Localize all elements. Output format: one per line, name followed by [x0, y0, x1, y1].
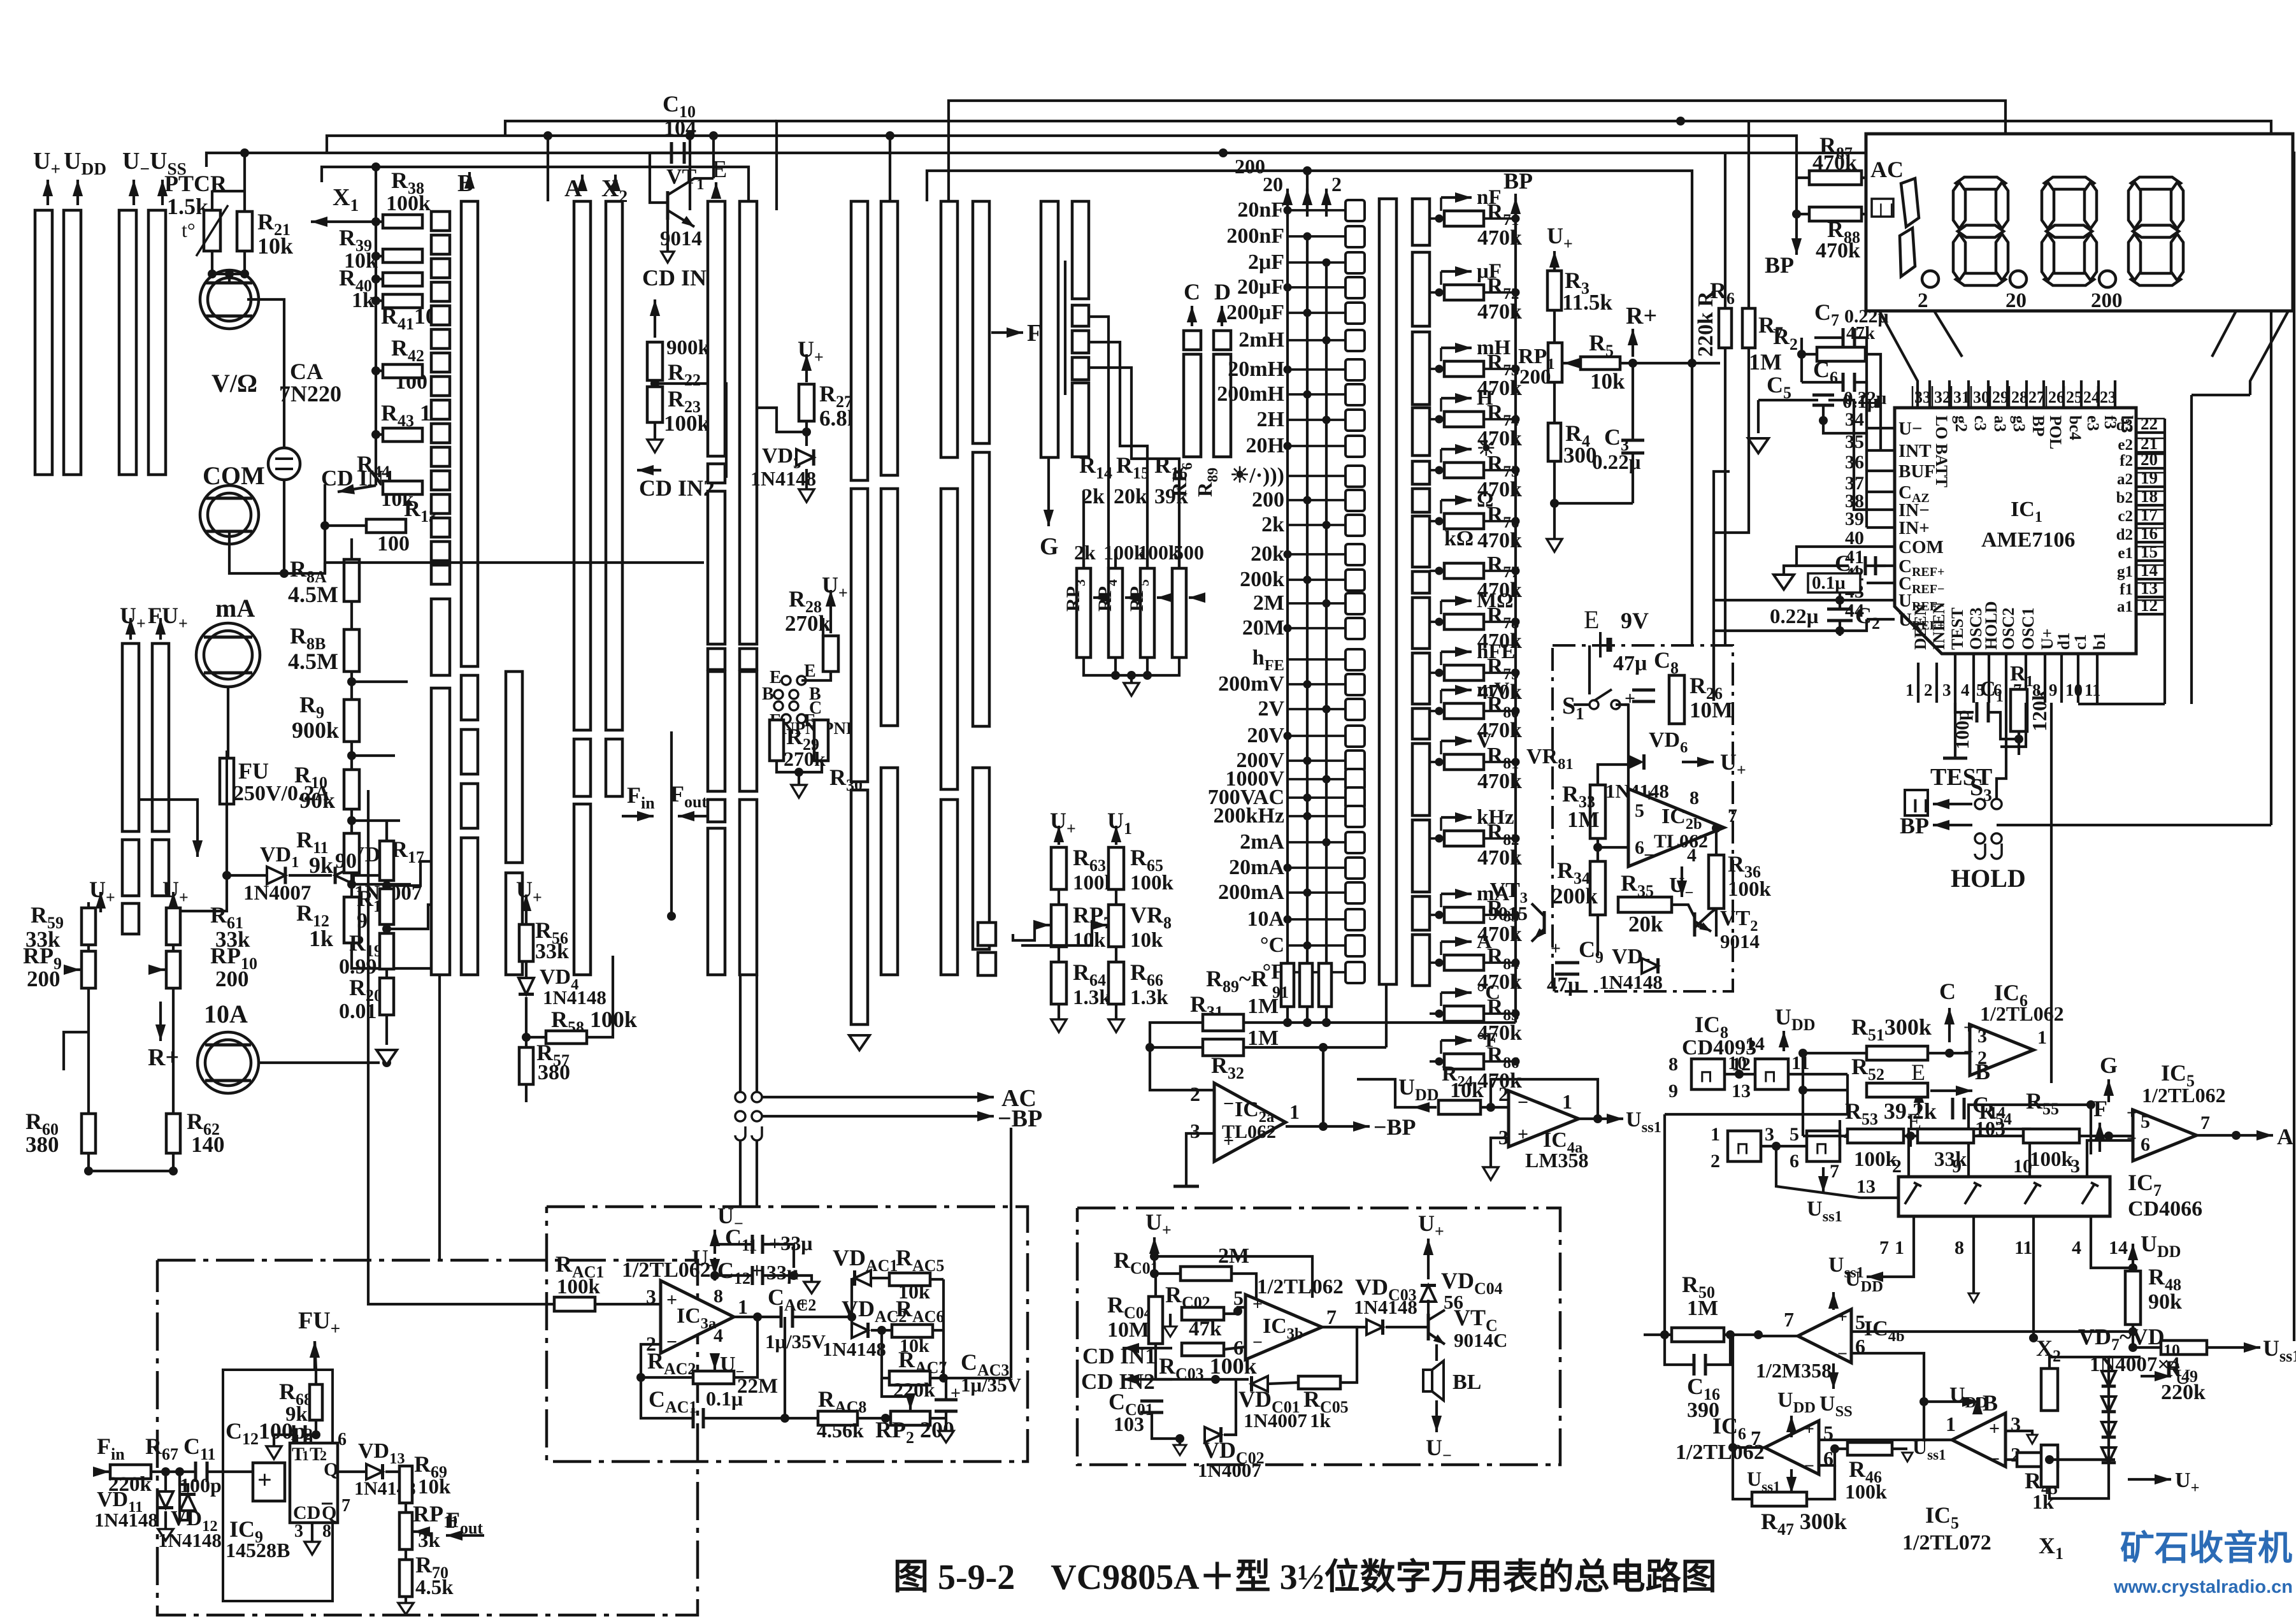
svg-text:V: V: [1477, 729, 1492, 752]
IC7 bottom pins: [1912, 1216, 1915, 1239]
svg-text:3: 3: [294, 1521, 303, 1541]
svg-text:31: 31: [1953, 388, 1970, 406]
svg-text:TEST: TEST: [1948, 608, 1967, 650]
resistor R33 1M: [1590, 785, 1605, 838]
wire R29 bottom join / R30: [777, 762, 822, 772]
resistor R67 220k: [110, 1465, 151, 1479]
svg-text:c2: c2: [2118, 508, 2133, 525]
wires pot tops: [1082, 549, 1085, 568]
svg-text:8: 8: [322, 1521, 331, 1541]
svg-text:0.1μ: 0.1μ: [1812, 573, 1846, 593]
gate IC8a: [1691, 1059, 1725, 1089]
switch bar B x724: [461, 201, 478, 666]
svg-text:°C: °C: [1260, 933, 1284, 957]
svg-text:U: U: [2175, 1365, 2191, 1389]
svg-text:1M: 1M: [1749, 349, 1782, 375]
svg-text:2: 2: [1331, 173, 1342, 196]
node G arrow: [2107, 1079, 2110, 1102]
wire to V-ohm terminal: [212, 273, 245, 275]
wire R23 down arrow: [654, 422, 656, 440]
svg-text:200: 200: [2091, 289, 2123, 312]
svg-text:G: G: [2100, 1053, 2118, 1078]
svg-text:e2: e2: [2118, 436, 2133, 454]
svg-text:7: 7: [2200, 1112, 2210, 1133]
node G arrow: [1047, 457, 1050, 526]
svg-text:8: 8: [1955, 1237, 1964, 1258]
switch bar A x901: [574, 201, 591, 730]
wires battery block internals: [1598, 765, 1628, 785]
svg-text:29: 29: [1992, 388, 2009, 406]
svg-text:5: 5: [1635, 800, 1644, 821]
svg-text:μF: μF: [1477, 260, 1502, 283]
wire IN+ COM ground: [1757, 400, 1760, 433]
IC7 inside switch symbols: [1905, 1184, 1918, 1204]
wire taps to boxes: [352, 680, 408, 683]
svg-text:d3: d3: [2116, 417, 2133, 434]
svg-text:Ω: Ω: [1477, 489, 1493, 512]
potentiometer RP1 200: [1548, 343, 1562, 382]
svg-text:1: 1: [1946, 1412, 1956, 1435]
svg-text:28: 28: [2011, 388, 2028, 406]
svg-text:+: +: [1963, 1018, 1974, 1038]
svg-text:R+: R+: [1626, 303, 1657, 329]
svg-text:1k: 1k: [309, 926, 333, 951]
wires R6 R7 up to buses: [1724, 153, 1726, 308]
svg-text:100k: 100k: [1130, 872, 1174, 895]
resistor R86 470k: [1444, 1054, 1484, 1069]
potentiometer RP2 200: [891, 1411, 930, 1425]
svg-text:9k: 9k: [309, 852, 333, 878]
svg-text:3: 3: [646, 1285, 656, 1308]
display block frame: [1866, 134, 2293, 311]
svg-text:LM358: LM358: [1525, 1149, 1589, 1172]
wire VD pair bottom: [168, 840, 227, 911]
svg-text:FU: FU: [238, 758, 269, 784]
svg-text:200k: 200k: [1240, 568, 1284, 591]
svg-text:16: 16: [2141, 524, 2158, 543]
svg-text:hFE: hFE: [1477, 640, 1516, 663]
svg-text:Q: Q: [322, 1502, 336, 1523]
op-amp IC2a TL062: [1214, 1083, 1286, 1161]
svg-text:10k: 10k: [1450, 1079, 1484, 1102]
svg-text:4: 4: [1961, 680, 1970, 700]
contact boxes B lower: [461, 675, 478, 720]
wire R18 tap: [387, 861, 433, 886]
wire R88 to lobat: [1862, 213, 1881, 215]
svg-text:1.3k: 1.3k: [1073, 986, 1111, 1009]
switch bar x1527: [973, 201, 989, 443]
svg-text:2H: 2H: [1257, 408, 1284, 431]
crystal X1: [2041, 1445, 2058, 1487]
svg-text:7: 7: [1830, 1161, 1839, 1182]
contact box A lower: [574, 739, 591, 796]
svg-text:4.5M: 4.5M: [288, 649, 338, 674]
node U- below pin4: [714, 1353, 716, 1370]
svg-text:COM: COM: [1898, 537, 1944, 557]
resistor R80 470k: [1444, 703, 1484, 719]
svg-text:d1: d1: [2055, 633, 2073, 650]
svg-text:270k: 270k: [784, 747, 826, 770]
svg-text:900k: 900k: [292, 717, 339, 743]
wire chains R59 RP9 R60: [87, 945, 90, 951]
wire R87 to AC: [1862, 176, 1886, 179]
wire R38-R41 left rail: [376, 220, 383, 223]
switch bar x1683 upper: [1072, 201, 1089, 299]
svg-text:100k: 100k: [2030, 1148, 2074, 1171]
wires gates to R51 cluster: [1803, 1089, 1848, 1091]
display decimal points: [1922, 271, 1939, 287]
svg-text:8: 8: [1690, 787, 1699, 808]
resistor R6 220k: [1719, 308, 1732, 348]
switch bar x1383: [881, 201, 898, 475]
svg-text:1: 1: [2037, 1027, 2047, 1048]
svg-text:1: 1: [1289, 1100, 1300, 1123]
pot wiper arrows: [1093, 596, 1107, 599]
svg-text:20μF: 20μF: [1237, 275, 1284, 299]
wire CD IN2 long: [325, 561, 704, 564]
svg-text:1M: 1M: [1247, 995, 1279, 1018]
node CD IN1 down arrow: [666, 220, 669, 252]
contact boxes x1683: [1072, 305, 1089, 326]
svg-text:1M: 1M: [1687, 1297, 1718, 1320]
block frame buzzer driver: [1077, 1208, 1560, 1465]
svg-text:f2: f2: [2120, 452, 2133, 470]
svg-text:nF: nF: [1477, 186, 1502, 209]
svg-text:20mA: 20mA: [1229, 856, 1284, 879]
svg-text:10k: 10k: [1073, 929, 1106, 952]
wire top bus 1: [949, 101, 2005, 201]
resistor R63 100k: [1051, 847, 1066, 889]
wire IC8a-b: [1725, 1073, 1755, 1075]
transistor socket NPN PNP pins: [782, 676, 791, 685]
svg-text:2k: 2k: [1082, 485, 1105, 508]
svg-text:200mV: 200mV: [1218, 672, 1284, 696]
svg-text:100k: 100k: [1845, 1480, 1887, 1503]
svg-text:+: +: [1252, 1295, 1263, 1314]
svg-text:10M: 10M: [1690, 698, 1733, 722]
svg-text:F: F: [2093, 1096, 2107, 1121]
svg-text:B: B: [1975, 1059, 1990, 1084]
wire FU+ feed vertical: [438, 975, 441, 1260]
svg-text:120k: 120k: [2028, 689, 2051, 731]
switch bar USS: [148, 210, 166, 475]
svg-text:1: 1: [302, 1448, 309, 1463]
svg-text:1N4148: 1N4148: [1599, 971, 1663, 993]
transistor VTC 9014C: [1416, 1326, 1428, 1328]
svg-text:90: 90: [335, 849, 357, 873]
svg-text:HOLD: HOLD: [1951, 864, 2026, 893]
svg-text:R47 300k: R47 300k: [1761, 1509, 1847, 1539]
svg-text:+: +: [1518, 1124, 1528, 1145]
svg-text:图 5-9-2 VC9805A＋型 3½位数字万用表的总电路: 图 5-9-2 VC9805A＋型 3½位数字万用表的总电路图: [893, 1558, 1717, 1597]
svg-text:32: 32: [1934, 388, 1951, 406]
switch bar U-: [119, 210, 136, 475]
wire S2 to AC arrow: [762, 1096, 956, 1098]
svg-text:G: G: [1040, 533, 1059, 560]
diode VDC01 1N4007: [1252, 1376, 1268, 1391]
svg-text:1: 1: [1562, 1090, 1572, 1113]
display digit 8 second: [2044, 177, 2094, 189]
svg-text:100k: 100k: [664, 411, 710, 436]
resistor R81 470k: [1444, 754, 1484, 770]
wire V/ohm to CA: [247, 299, 284, 409]
svg-text:1μ/35V: 1μ/35V: [961, 1374, 1022, 1396]
svg-text:−: −: [1837, 1344, 1848, 1364]
svg-text:CD4066: CD4066: [2128, 1197, 2202, 1221]
HOLD contacts: [1975, 833, 1985, 844]
svg-text:0.01: 0.01: [339, 1000, 377, 1023]
svg-text:3: 3: [1942, 680, 1951, 700]
resistor RC05 1k: [1298, 1376, 1340, 1389]
ground CC01: [1179, 1439, 1181, 1445]
resistor R46 100k: [1848, 1442, 1892, 1455]
svg-text:a2: a2: [2117, 471, 2133, 488]
wire R32 row: [1244, 1046, 1386, 1049]
svg-text:200: 200: [1519, 366, 1551, 389]
svg-text:39: 39: [1845, 508, 1864, 529]
switch bar E1 x1111: [708, 201, 725, 456]
svg-text:7N220: 7N220: [279, 381, 341, 406]
resistor R76 470k: [1444, 514, 1484, 529]
svg-text:A: A: [2277, 1124, 2293, 1149]
svg-text:−: −: [1989, 1449, 2000, 1470]
svg-text:E: E: [712, 156, 727, 183]
svg-text:V/Ω: V/Ω: [212, 369, 257, 398]
wire from RP9 up: [99, 892, 102, 912]
switch bar x1634: [1041, 201, 1058, 457]
svg-text:19: 19: [2141, 468, 2158, 487]
svg-text:2mH: 2mH: [1238, 328, 1284, 352]
IC1 left pins 34-44: [1867, 427, 1895, 429]
wires R1 C1 osc: [1955, 703, 1974, 712]
svg-text:3: 3: [1190, 1119, 1200, 1142]
svg-text:g3: g3: [2010, 415, 2028, 432]
svg-text:104: 104: [664, 117, 696, 140]
wire top bus 5: [322, 167, 749, 210]
resistor R66 1.3k: [1109, 962, 1124, 1004]
wire chains R61 RP10 R62: [172, 945, 175, 951]
wires from contact boxes to right: [1089, 317, 1109, 568]
switch bar FUcol1: [122, 643, 139, 831]
wire S2 to -BP arrow: [762, 1115, 956, 1117]
svg-text:BP: BP: [1503, 168, 1533, 194]
svg-text:4.5k: 4.5k: [415, 1576, 454, 1599]
svg-text:200: 200: [1252, 488, 1284, 512]
contact box FUcol1 lower: [122, 840, 139, 896]
svg-text:1k: 1k: [1310, 1409, 1331, 1432]
wire R31 row to bus rail: [1244, 1021, 1516, 1024]
svg-text:8: 8: [714, 1286, 723, 1307]
svg-text:A: A: [1477, 930, 1492, 953]
switch bar range tall: [1379, 199, 1396, 984]
svg-text:13: 13: [1732, 1081, 1751, 1102]
resistor RC03 100k: [1182, 1343, 1224, 1356]
svg-text:1: 1: [738, 1295, 748, 1318]
wire battery to S1 to VD6: [1588, 645, 1591, 694]
svg-text:1: 1: [1905, 680, 1914, 700]
svg-text:9: 9: [1668, 1081, 1678, 1102]
svg-text:6: 6: [1635, 837, 1644, 858]
switch bar X2 x951: [606, 201, 622, 730]
svg-text:200: 200: [215, 966, 249, 991]
resistor R56 33k: [519, 924, 533, 961]
svg-text:+: +: [1837, 1307, 1848, 1327]
svg-text:20H: 20H: [1246, 434, 1284, 457]
svg-text:4.56k: 4.56k: [817, 1419, 864, 1442]
ground RC02: [1169, 1314, 1172, 1326]
wire C2 long feeds: [1714, 471, 1730, 600]
fuse FU 250V/0.2A: [227, 687, 229, 758]
svg-text:9014C: 9014C: [1454, 1329, 1507, 1351]
svg-text:47μ: 47μ: [1547, 974, 1580, 996]
display digit 8 first: [1956, 177, 2005, 189]
IC1 right rail: [2163, 419, 2166, 704]
svg-text:8: 8: [1668, 1054, 1678, 1075]
svg-text:7: 7: [1326, 1305, 1337, 1328]
svg-text:200kHz: 200kHz: [1214, 804, 1284, 828]
block frame AC rectifier: [547, 1207, 1028, 1462]
svg-text:c1: c1: [2071, 634, 2090, 650]
IC9 chip 14528B: [290, 1443, 338, 1523]
ground below bar x1336: [849, 1035, 870, 1050]
svg-text:−BP: −BP: [1374, 1114, 1416, 1140]
node U- below speaker: [1435, 1400, 1438, 1432]
wire IC4a pin3 ground: [1491, 1138, 1509, 1167]
switch bar E2 x1161: [740, 201, 757, 644]
svg-text:+: +: [257, 1465, 272, 1494]
IC7 CD4066 body: [1898, 1177, 2110, 1216]
svg-text:1N4148: 1N4148: [822, 1338, 886, 1360]
svg-text:POL: POL: [2046, 415, 2065, 449]
diode VD4 1N4148: [519, 978, 534, 995]
contact box X2 lower: [606, 739, 622, 796]
node Uss1 right of R46: [1892, 1448, 1907, 1450]
wire RC02 to pin5: [1224, 1307, 1245, 1314]
svg-text:b2: b2: [2116, 489, 2133, 507]
svg-text:20: 20: [1263, 173, 1283, 196]
svg-text:7: 7: [1784, 1308, 1794, 1331]
svg-text:°C: °C: [1477, 981, 1500, 1004]
svg-text:INIEN: INIEN: [1930, 602, 1948, 650]
svg-text:1/2TL062: 1/2TL062: [2142, 1084, 2226, 1107]
switch S2 contacts: [735, 1092, 745, 1102]
resistor R82 470k: [1444, 831, 1484, 846]
node USS below IC4b: [1832, 1363, 1835, 1389]
op-amp IC5 right: [1952, 1413, 2005, 1467]
wire wiper link: [1013, 925, 1035, 940]
wire IC4a output Uss1: [1579, 1117, 1598, 1120]
resistor R78 470k: [1444, 614, 1484, 629]
wire branch arrow left: [196, 819, 199, 857]
svg-text:AC: AC: [1870, 157, 1904, 182]
svg-text:200μF: 200μF: [1226, 301, 1284, 324]
wire TEST pin3 to ground symbol: [1954, 703, 1956, 758]
svg-text:380: 380: [25, 1132, 59, 1157]
svg-text:C: C: [1184, 279, 1200, 305]
svg-text:10k: 10k: [257, 233, 293, 259]
svg-text:❘❘: ❘❘: [1876, 203, 1897, 217]
svg-text:⊓: ⊓: [1700, 1067, 1712, 1086]
resistor R5 10k: [1581, 357, 1620, 370]
svg-text:°F: °F: [1477, 1029, 1498, 1052]
terminal V/ohm jack: [200, 270, 259, 329]
svg-text:17: 17: [2141, 505, 2158, 524]
svg-text:2mA: 2mA: [1240, 830, 1284, 854]
svg-text:90k: 90k: [2148, 1290, 2182, 1314]
wire 200 header feed: [927, 171, 1692, 363]
svg-text:47k: 47k: [1846, 323, 1876, 343]
wire junction dots on buses: [543, 131, 552, 140]
svg-text:26: 26: [2048, 388, 2065, 406]
svg-text:bc4: bc4: [2066, 415, 2084, 440]
svg-text:2: 2: [1498, 1082, 1509, 1105]
gate IC8b: [1755, 1059, 1788, 1089]
svg-text:+: +: [1804, 1419, 1814, 1439]
wire top bus 4: [206, 153, 2294, 1341]
svg-text:mH: mH: [1477, 336, 1510, 359]
svg-text:MΩ: MΩ: [1477, 589, 1514, 612]
svg-text:B: B: [762, 684, 774, 704]
svg-text:d2: d2: [2116, 526, 2133, 543]
wire pin2 feedback: [641, 1344, 661, 1377]
switch bar x1683 lower: [1072, 383, 1089, 457]
wire 10A to R20: [259, 1061, 380, 1064]
svg-text:E: E: [804, 661, 816, 681]
switch bar UDD: [64, 210, 81, 475]
svg-text:1: 1: [1711, 1124, 1720, 1145]
svg-text:HOLD: HOLD: [1982, 601, 2000, 650]
svg-text:1: 1: [1895, 1237, 1904, 1258]
svg-text:AME7106: AME7106: [1981, 528, 2075, 552]
resistor R77 470k: [1444, 563, 1484, 578]
switch bar B lowest: [461, 838, 478, 975]
svg-text:VD7~VD: VD7~VD: [2078, 1324, 2165, 1354]
svg-text:t°: t°: [182, 219, 196, 241]
wire R68 to FU+: [315, 1420, 317, 1435]
svg-text:20M: 20M: [1242, 616, 1284, 640]
IC7 top pins: [1907, 1154, 1910, 1177]
diode VDC04 56: [1421, 1286, 1436, 1302]
svg-text:E: E: [1907, 1109, 1921, 1134]
svg-text:1N4148: 1N4148: [543, 986, 606, 1009]
resistor R45 1k: [2017, 1453, 2058, 1467]
svg-text:22: 22: [2141, 414, 2158, 433]
svg-text:20mH: 20mH: [1228, 357, 1284, 381]
svg-text:1N4148: 1N4148: [94, 1509, 158, 1531]
svg-text:+: +: [1644, 785, 1654, 806]
svg-text:20k: 20k: [1628, 912, 1663, 937]
svg-text:47μ: 47μ: [1613, 652, 1647, 675]
svg-text:12: 12: [2141, 596, 2158, 615]
wire R38 rail to bus: [375, 167, 377, 222]
svg-text:E: E: [1584, 605, 1599, 634]
svg-text:+: +: [666, 1290, 677, 1311]
switch bar segmented right: [1412, 199, 1430, 245]
resistor R34 200k: [1590, 861, 1605, 915]
svg-text:H: H: [1477, 387, 1493, 410]
svg-text:2: 2: [1190, 1082, 1200, 1105]
svg-text:1N4148: 1N4148: [158, 1529, 222, 1551]
op-amp IC4a LM358: [1509, 1091, 1579, 1147]
wire IC6 pin6 to R46: [1819, 1449, 1848, 1465]
wire U+ drop to jacks: [64, 1032, 89, 1070]
svg-text:+: +: [1551, 939, 1561, 959]
resistor R35 20k: [1618, 897, 1672, 912]
op-amp IC2b TL062: [1628, 789, 1724, 866]
wire R28 to socket: [801, 672, 831, 680]
resistor R36 100k: [1709, 855, 1724, 909]
wire input feed from switch area: [368, 790, 554, 1304]
